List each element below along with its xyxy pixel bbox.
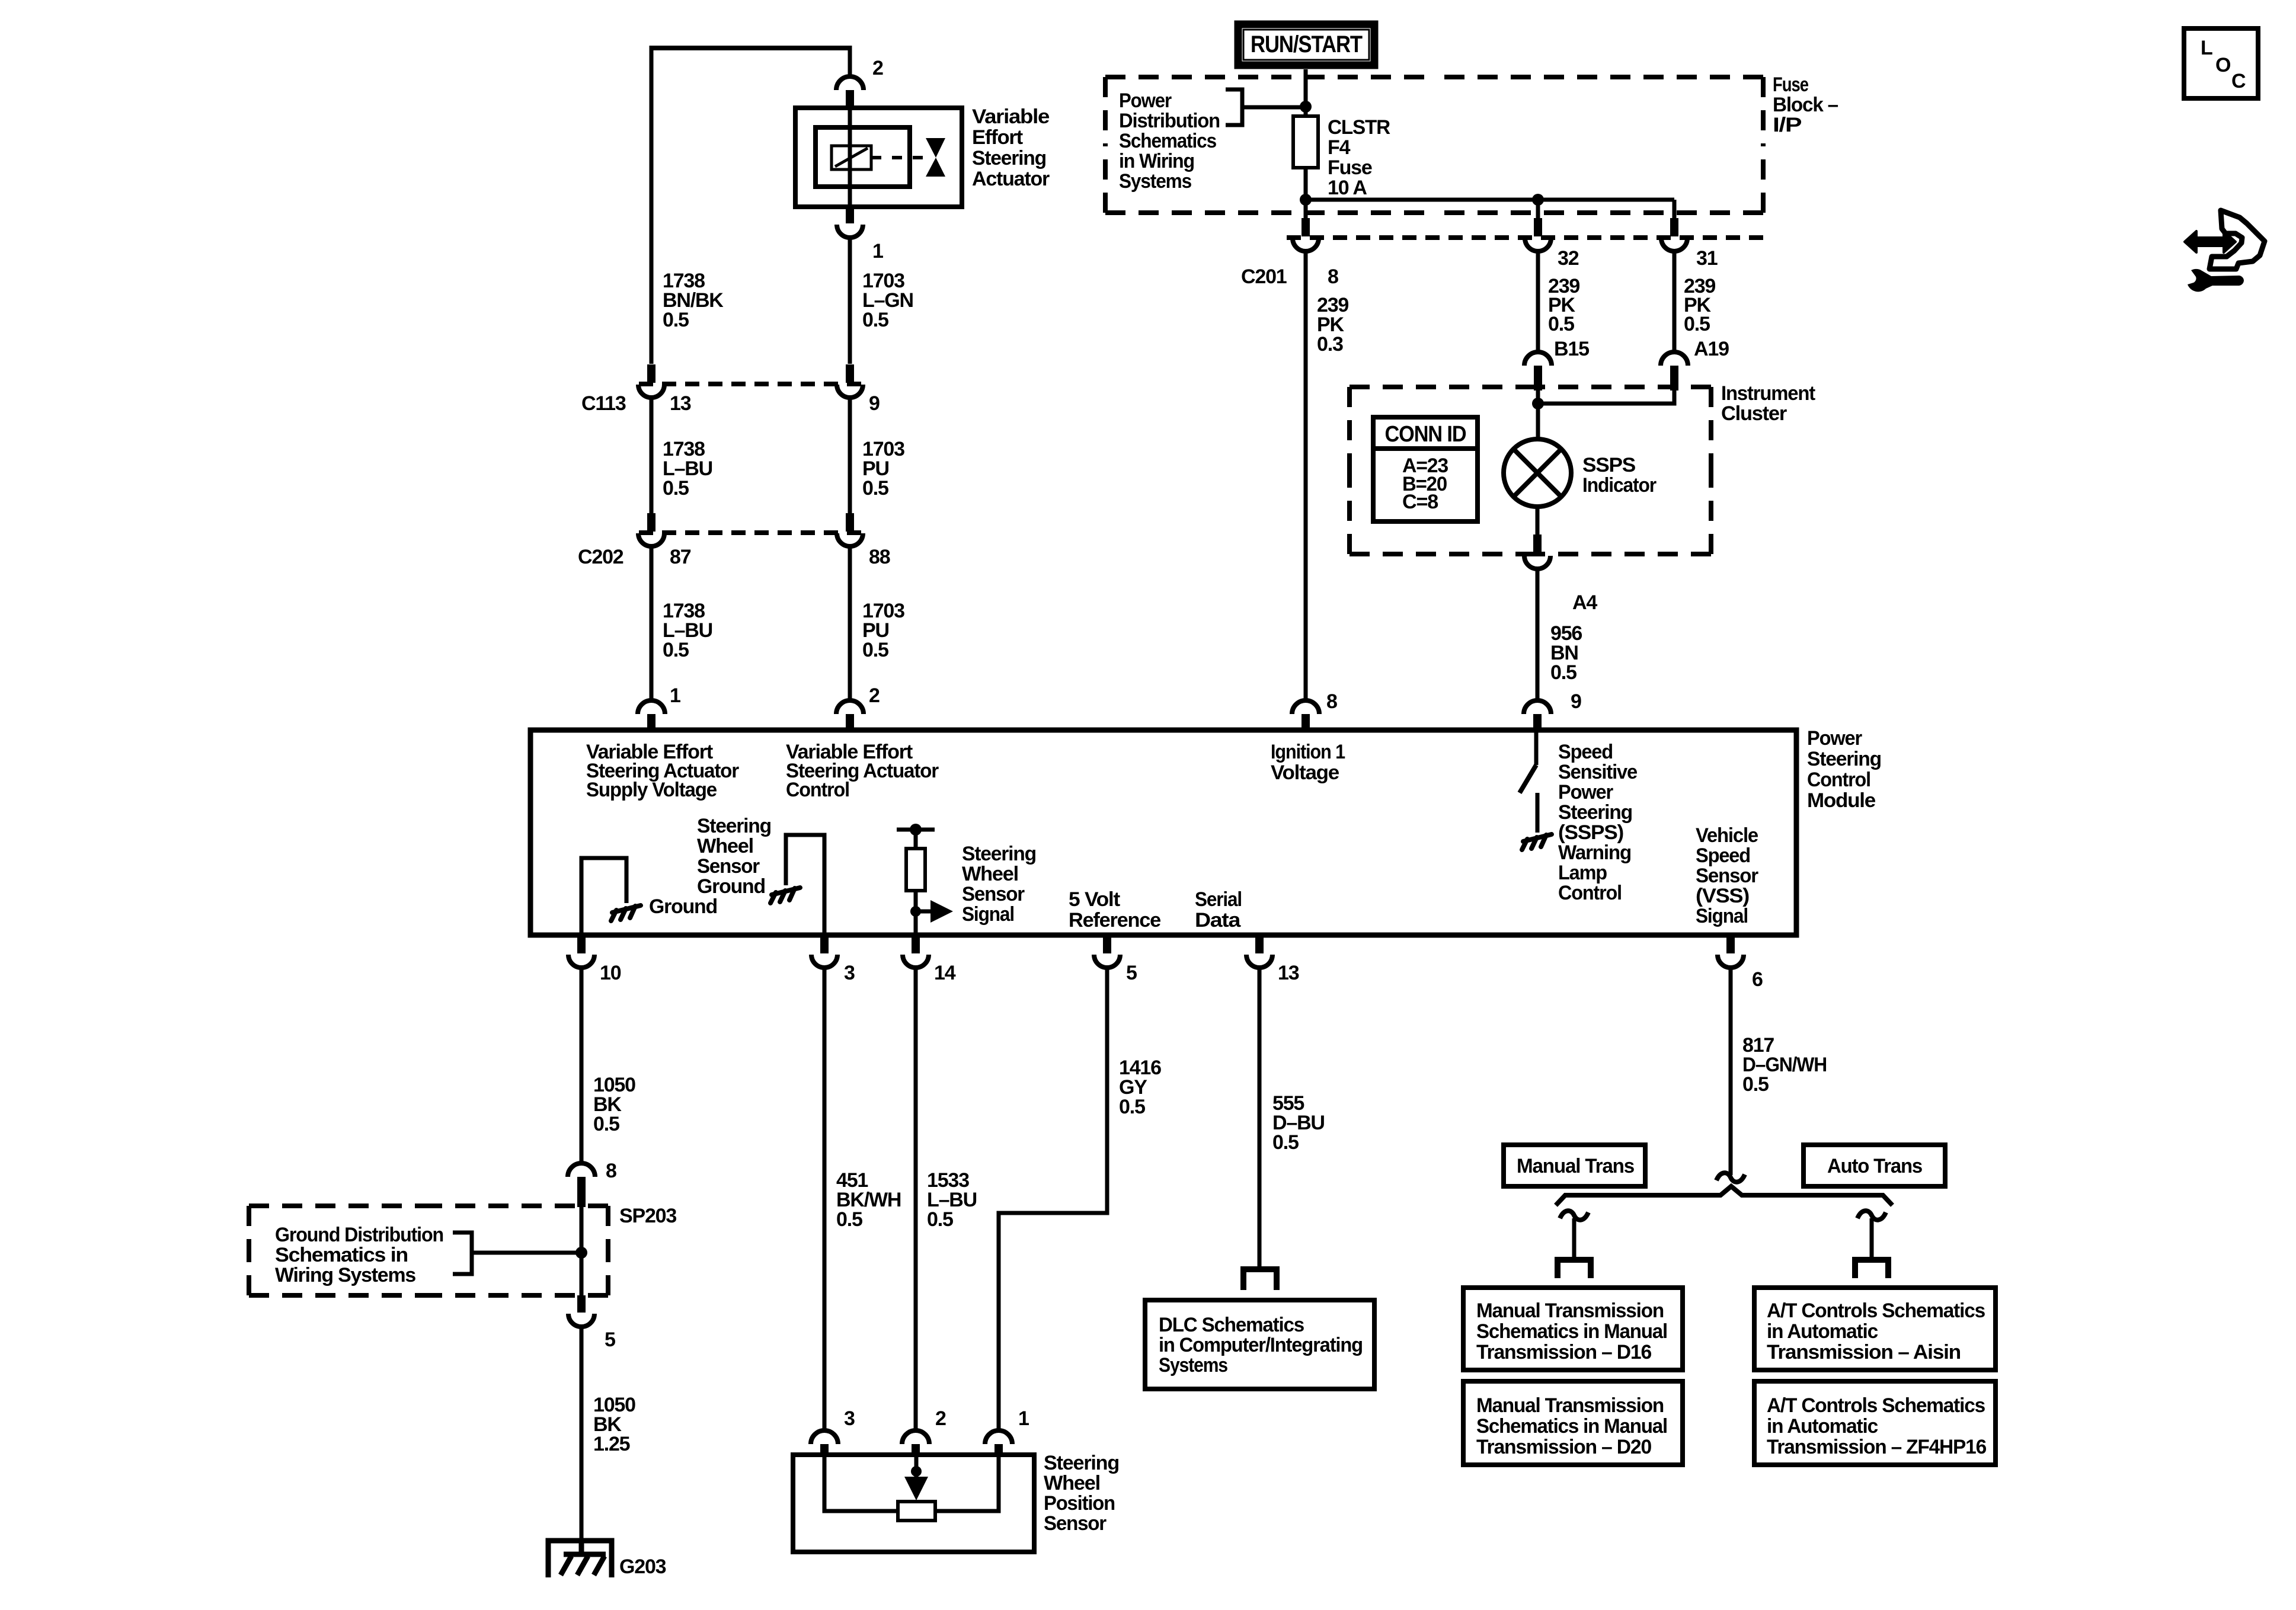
svg-text:Power: Power — [1558, 781, 1613, 804]
svg-text:Indicator: Indicator — [1582, 474, 1657, 497]
wire 1738 L-BU to PSCM pin 1 — [650, 546, 654, 701]
manual transmission D20 box — [1463, 1381, 1683, 1465]
svg-text:Sensor: Sensor — [1044, 1512, 1107, 1535]
svg-text:Ignition 1: Ignition 1 — [1271, 741, 1345, 763]
internal ground link from pin 10 — [581, 858, 626, 935]
svg-text:8: 8 — [1328, 265, 1338, 288]
power steering control module box — [530, 730, 1796, 935]
svg-text:8: 8 — [1326, 690, 1337, 713]
svg-text:0.5: 0.5 — [1550, 661, 1576, 684]
wire 451 BK/WH from pin 3 to sensor pin 3 — [823, 968, 827, 1431]
svg-text:2: 2 — [935, 1407, 946, 1430]
splice SP203 dashed box — [249, 1206, 608, 1295]
svg-text:5 Volt: 5 Volt — [1069, 888, 1120, 911]
internal SSPS warning lamp switch — [1534, 730, 1539, 765]
svg-text:3: 3 — [844, 1407, 855, 1430]
PSCM pin 10 connector — [568, 935, 594, 968]
svg-text:in Computer/Integrating: in Computer/Integrating — [1159, 1334, 1363, 1356]
svg-text:Steering: Steering — [697, 815, 771, 837]
connector 5 out of SP203 — [568, 1295, 594, 1327]
Auto Trans tag box — [1803, 1145, 1945, 1186]
wire 1703 PU to PSCM pin 2 — [848, 546, 852, 701]
wire 1703 L-GN from actuator pin 1 to C113 pin 9 — [848, 237, 852, 364]
AT controls ZF4HP16 box — [1754, 1381, 1996, 1465]
svg-text:DLC Schematics: DLC Schematics — [1159, 1314, 1304, 1336]
svg-text:(VSS): (VSS) — [1696, 885, 1749, 907]
svg-text:Schematics in: Schematics in — [275, 1244, 408, 1266]
svg-text:2: 2 — [869, 684, 880, 707]
connector 8 into SP203 — [568, 1163, 595, 1207]
svg-text:Distribution: Distribution — [1119, 110, 1220, 132]
wire 1416 GY from pin 5 to sensor pin 1 — [999, 968, 1107, 1431]
wire from B15 to lamp junction — [1536, 391, 1540, 441]
wire from RUN/START to fuse — [1304, 69, 1308, 116]
variable effort steering actuator outer box — [795, 108, 962, 207]
junction dot at pin 32 branch — [1532, 194, 1544, 206]
svg-text:1: 1 — [872, 240, 883, 263]
svg-text:(SSPS): (SSPS) — [1558, 821, 1623, 844]
wire from fuse to bus junction — [1304, 168, 1308, 219]
svg-text:Wiring Systems: Wiring Systems — [275, 1264, 415, 1286]
wire from A19 down and across to junction — [1538, 391, 1674, 404]
svg-text:Voltage: Voltage — [1271, 761, 1339, 784]
ground symbol internal pin 10 — [611, 905, 641, 921]
svg-text:Manual Transmission: Manual Transmission — [1476, 1394, 1664, 1417]
svg-text:0.5: 0.5 — [862, 639, 888, 661]
connector C201 dashed line — [1287, 235, 1765, 240]
svg-text:Steering: Steering — [1807, 748, 1881, 770]
potentiometer resistor element — [898, 1502, 935, 1521]
svg-text:Speed: Speed — [1558, 741, 1613, 763]
svg-text:Signal: Signal — [962, 903, 1014, 926]
svg-text:Reference: Reference — [1069, 909, 1160, 932]
manual branch wire — [1572, 1218, 1576, 1257]
svg-text:Ground: Ground — [697, 875, 765, 898]
svg-text:A/T Controls Schematics: A/T Controls Schematics — [1767, 1299, 1985, 1322]
svg-text:Serial: Serial — [1195, 888, 1242, 911]
CONN ID table box — [1373, 417, 1478, 521]
svg-text:Transmission – Aisin: Transmission – Aisin — [1767, 1341, 1961, 1363]
svg-text:1: 1 — [670, 684, 680, 707]
service icon double arrow — [2185, 231, 2236, 252]
service icon outline shape — [2209, 210, 2265, 269]
svg-text:0.5: 0.5 — [663, 639, 689, 661]
svg-text:CONN ID: CONN ID — [1385, 422, 1466, 447]
svg-text:Ground: Ground — [649, 895, 717, 918]
manual branch break symbol — [1560, 1211, 1588, 1219]
LOC legend box — [2184, 28, 2258, 98]
svg-text:Actuator: Actuator — [972, 168, 1050, 190]
auto branch wire — [1870, 1218, 1874, 1257]
svg-text:5: 5 — [605, 1329, 615, 1351]
svg-text:Auto Trans: Auto Trans — [1827, 1155, 1922, 1177]
svg-text:Control: Control — [1807, 769, 1870, 791]
wire left vertical 1738 BN/BK down to C113 pin 13 — [650, 46, 654, 364]
wire 956 BN to PSCM pin 9 — [1536, 569, 1540, 701]
svg-text:Control: Control — [786, 779, 849, 801]
svg-text:Steering: Steering — [962, 843, 1036, 865]
potentiometer wiper — [914, 1455, 919, 1490]
svg-text:Manual Transmission: Manual Transmission — [1476, 1299, 1664, 1322]
svg-text:O: O — [2215, 54, 2231, 76]
svg-text:Position: Position — [1044, 1492, 1115, 1515]
actuator internal wire — [848, 108, 852, 207]
actuator inner box — [816, 127, 910, 187]
svg-text:A19: A19 — [1694, 338, 1729, 360]
svg-text:Transmission – ZF4HP16: Transmission – ZF4HP16 — [1767, 1436, 1986, 1458]
connector B15 symbol — [1524, 352, 1552, 391]
ground symbol steering wheel sensor ground — [770, 888, 800, 903]
connector C202 dashed line — [639, 530, 864, 535]
connector C113 pin 9 symbol — [837, 364, 863, 398]
svg-text:0.5: 0.5 — [862, 477, 888, 500]
svg-text:9: 9 — [1571, 690, 1581, 713]
sensor connector pin 1 — [985, 1430, 1012, 1457]
svg-text:9: 9 — [869, 392, 880, 415]
connector A4 symbol — [1524, 534, 1550, 569]
wire 239 PK 0.3 to PSCM pin 8 — [1304, 251, 1308, 701]
svg-text:Sensor: Sensor — [1696, 865, 1758, 887]
service icon wrench — [2188, 269, 2244, 292]
connector C201 pin 32 symbol — [1525, 218, 1551, 251]
svg-text:RUN/START: RUN/START — [1251, 31, 1363, 57]
svg-text:13: 13 — [670, 392, 691, 415]
svg-text:10 A: 10 A — [1328, 177, 1367, 199]
wire break symbol — [1716, 1173, 1745, 1182]
off-page connector to DLC — [1243, 1269, 1277, 1290]
svg-text:0.5: 0.5 — [1742, 1073, 1769, 1096]
PSCM pin 2 connector — [836, 700, 864, 731]
svg-text:Wheel: Wheel — [962, 863, 1018, 885]
svg-text:A4: A4 — [1572, 591, 1597, 614]
RUN/START power feed box — [1238, 24, 1374, 65]
svg-text:SP203: SP203 — [619, 1205, 676, 1227]
svg-text:A/T Controls Schematics: A/T Controls Schematics — [1767, 1394, 1985, 1417]
wire from top horizontal down to actuator pin 2 — [848, 46, 852, 78]
svg-text:88: 88 — [869, 546, 890, 568]
svg-text:Systems: Systems — [1119, 170, 1191, 193]
svg-text:32: 32 — [1558, 247, 1579, 270]
svg-text:Fuse: Fuse — [1773, 73, 1808, 96]
wire 1738 L-BU between C113 and C202 — [650, 397, 654, 513]
svg-text:Ground Distribution: Ground Distribution — [275, 1224, 443, 1246]
svg-text:3: 3 — [844, 962, 855, 984]
sensor connector pin 3 — [811, 1430, 838, 1457]
junction dot splice SP203 — [575, 1247, 587, 1259]
steering wheel position sensor box — [793, 1455, 1034, 1552]
connector C113 pin 13 symbol — [638, 364, 664, 398]
split brace — [1556, 1186, 1892, 1205]
svg-text:31: 31 — [1696, 247, 1718, 270]
svg-text:0.5: 0.5 — [593, 1113, 619, 1135]
svg-text:I/P: I/P — [1773, 114, 1802, 136]
svg-text:in Automatic: in Automatic — [1767, 1320, 1878, 1343]
svg-text:Sensor: Sensor — [962, 883, 1025, 905]
svg-text:Control: Control — [1558, 882, 1622, 904]
svg-text:Speed: Speed — [1696, 844, 1750, 867]
connector A19 symbol — [1661, 352, 1688, 391]
svg-text:14: 14 — [934, 962, 956, 984]
ground symbol SSPS warning lamp control — [1522, 834, 1552, 850]
svg-text:Warning: Warning — [1558, 841, 1631, 864]
fuse CLSTR F4 10A symbol — [1293, 116, 1318, 168]
connector C201 pin 31 symbol — [1661, 218, 1687, 251]
wire 817 D-GN/WH from pin 6 — [1729, 968, 1733, 1175]
AT controls Aisin box — [1754, 1288, 1996, 1370]
svg-text:in Wiring: in Wiring — [1119, 150, 1194, 172]
junction dot above SSPS lamp — [1532, 398, 1544, 409]
connector C113 dashed line — [639, 382, 864, 386]
svg-text:Instrument: Instrument — [1721, 382, 1815, 405]
connector pin 1 at actuator bottom — [837, 206, 863, 238]
wire from lamp to A4 — [1536, 507, 1540, 536]
PSCM pin 14 connector — [903, 935, 929, 968]
valve bowtie symbol — [926, 138, 945, 158]
svg-text:C=8: C=8 — [1402, 491, 1438, 513]
ignition bus horizontal wire — [1306, 198, 1674, 202]
svg-text:0.5: 0.5 — [1548, 313, 1574, 335]
svg-text:in Automatic: in Automatic — [1767, 1415, 1878, 1438]
svg-text:Transmission – D20: Transmission – D20 — [1476, 1436, 1651, 1458]
fuse block dashed box — [1105, 77, 1763, 213]
svg-text:Sensitive: Sensitive — [1558, 761, 1637, 783]
svg-text:5: 5 — [1126, 962, 1137, 984]
svg-text:CLSTR: CLSTR — [1328, 116, 1390, 139]
PSCM pin 9 connector — [1524, 700, 1551, 731]
svg-text:0.3: 0.3 — [1317, 333, 1343, 356]
manual transmission D16 box — [1463, 1288, 1683, 1370]
internal resistor at pin 14 — [914, 891, 918, 935]
wire 1703 PU between C113 and C202 — [848, 397, 852, 513]
svg-text:Steering: Steering — [972, 147, 1046, 169]
DLC schematics box — [1145, 1300, 1374, 1389]
ground G203 symbol — [548, 1541, 612, 1577]
svg-text:2: 2 — [872, 57, 883, 79]
svg-text:Vehicle: Vehicle — [1696, 824, 1758, 847]
svg-text:C: C — [2231, 70, 2246, 92]
internal ground link from pin 3 — [786, 835, 824, 935]
PSCM pin 13 connector — [1246, 935, 1272, 968]
svg-text:Steering: Steering — [1044, 1452, 1119, 1474]
off-page connector auto branch — [1855, 1260, 1888, 1278]
wire 239 PK 0.5 to A19 — [1673, 251, 1677, 353]
ground distribution bracket — [453, 1233, 472, 1274]
power distribution bracket — [1226, 89, 1242, 125]
svg-text:SSPS: SSPS — [1582, 454, 1636, 476]
PSCM pin 6 connector — [1718, 935, 1744, 968]
svg-text:0.5: 0.5 — [663, 477, 689, 500]
dashed link from solenoid to valve — [871, 156, 926, 159]
svg-text:Steering: Steering — [1558, 801, 1632, 824]
svg-text:10: 10 — [600, 962, 621, 984]
svg-text:0.5: 0.5 — [663, 309, 689, 331]
sensor connector pin 2 — [902, 1430, 929, 1457]
svg-text:0.5: 0.5 — [927, 1208, 953, 1231]
auto branch break symbol — [1857, 1211, 1886, 1219]
branch wire down to C201 pin 31 — [1673, 200, 1677, 220]
Manual Trans tag box — [1504, 1145, 1645, 1186]
svg-text:6: 6 — [1752, 968, 1763, 991]
connector C202 pin 88 symbol — [837, 513, 863, 546]
svg-text:Module: Module — [1807, 789, 1875, 812]
svg-text:Sensor: Sensor — [697, 855, 760, 878]
svg-text:1: 1 — [1018, 1407, 1029, 1430]
svg-text:Fuse: Fuse — [1328, 156, 1372, 179]
PSCM pin 3 connector — [811, 935, 837, 968]
svg-text:Power: Power — [1807, 727, 1862, 750]
sensor potentiometer wires — [824, 1455, 999, 1511]
splice wire through SP203 — [580, 1207, 584, 1295]
wire top horizontal from supply branch to actuator pin 2 — [650, 46, 850, 50]
svg-text:Wheel: Wheel — [697, 835, 753, 857]
svg-text:Power: Power — [1119, 89, 1172, 112]
svg-text:Lamp: Lamp — [1558, 862, 1607, 884]
connector C202 pin 87 symbol — [638, 513, 664, 546]
svg-text:Data: Data — [1195, 909, 1242, 932]
svg-text:13: 13 — [1278, 962, 1299, 984]
svg-text:Manual Trans: Manual Trans — [1517, 1155, 1634, 1177]
svg-text:C202: C202 — [578, 546, 623, 568]
svg-text:Cluster: Cluster — [1721, 402, 1787, 425]
svg-text:G203: G203 — [619, 1555, 666, 1578]
svg-text:C201: C201 — [1241, 265, 1287, 288]
PSCM pin 1 connector — [638, 700, 665, 731]
branch wire down to C201 pin 32 — [1536, 200, 1540, 220]
svg-text:L: L — [2201, 37, 2212, 59]
svg-text:F4: F4 — [1328, 136, 1351, 159]
svg-text:1.25: 1.25 — [593, 1433, 630, 1455]
svg-text:0.5: 0.5 — [836, 1208, 862, 1231]
svg-text:Systems: Systems — [1159, 1354, 1227, 1377]
svg-text:0.5: 0.5 — [862, 309, 888, 331]
svg-text:Variable: Variable — [972, 105, 1049, 128]
svg-text:0.5: 0.5 — [1119, 1096, 1145, 1118]
svg-text:B15: B15 — [1554, 338, 1589, 360]
svg-text:Signal: Signal — [1696, 905, 1748, 927]
svg-text:Schematics in Manual: Schematics in Manual — [1476, 1415, 1667, 1438]
off-page connector manual branch — [1558, 1260, 1591, 1278]
solenoid coil with diagonal — [832, 146, 871, 169]
svg-text:0.5: 0.5 — [1684, 313, 1710, 335]
svg-text:8: 8 — [606, 1160, 616, 1182]
svg-text:Schematics: Schematics — [1119, 130, 1216, 152]
PSCM pin 5 connector — [1094, 935, 1120, 968]
svg-text:Schematics in Manual: Schematics in Manual — [1476, 1320, 1667, 1343]
instrument cluster dashed box — [1350, 387, 1711, 554]
svg-text:87: 87 — [670, 546, 691, 568]
PSCM pin 8 connector — [1292, 700, 1319, 731]
SSPS indicator lamp — [1504, 439, 1571, 507]
junction dot at ignition bus left — [1300, 194, 1312, 206]
wire 1050 BK 1.25 to G203 — [580, 1327, 584, 1541]
wire 239 PK 0.5 to B15 — [1536, 251, 1540, 353]
svg-text:Block –: Block – — [1773, 94, 1838, 116]
connector C201 pin 8 symbol — [1293, 218, 1319, 251]
wire 1533 L-BU from pin 14 to sensor pin 2 — [914, 968, 918, 1431]
svg-text:Effort: Effort — [972, 126, 1023, 149]
wire 555 D-BU from pin 13 to DLC — [1258, 968, 1262, 1268]
svg-text:Wheel: Wheel — [1044, 1472, 1100, 1494]
svg-text:Supply Voltage: Supply Voltage — [586, 779, 717, 801]
junction dot power distribution tap — [1300, 101, 1312, 113]
connector pin 2 at actuator — [836, 76, 864, 109]
wire 1050 BK 0.5 from pin 10 — [580, 968, 584, 1163]
svg-text:0.5: 0.5 — [1272, 1131, 1299, 1154]
svg-text:Transmission – D16: Transmission – D16 — [1476, 1341, 1651, 1363]
svg-text:C113: C113 — [581, 392, 626, 415]
junction dot and signal arrow at pin 14 — [910, 906, 921, 917]
